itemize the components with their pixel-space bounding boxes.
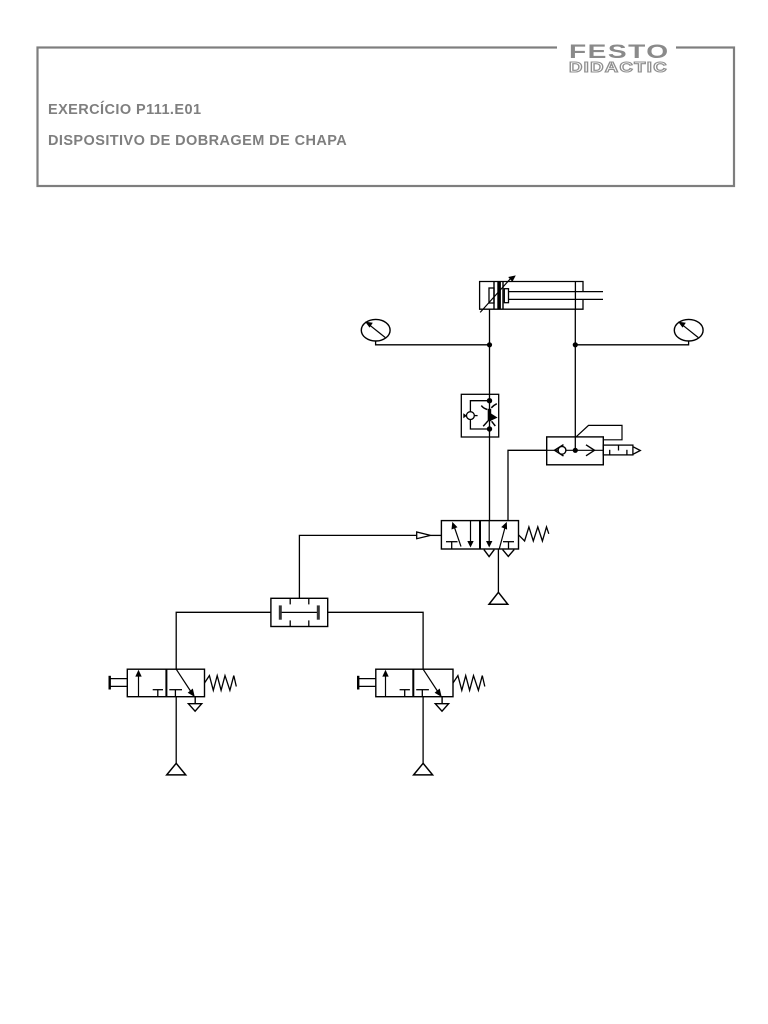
valve 1V2 left box down arrow bbox=[467, 521, 473, 548]
title text line 1 bbox=[48, 102, 201, 118]
valve 1S2 left box blocked port T bbox=[400, 690, 410, 697]
valve 1V2 left box blocked port T bbox=[446, 542, 458, 549]
wire: shuttle valve left port to valve 1S1 bbox=[176, 612, 271, 669]
quick exhaust valve 1V4 bbox=[547, 437, 604, 465]
cylinder cushioning adjust arrow bbox=[480, 275, 516, 312]
wire: cylinder right port down to quick exhaust valve bbox=[574, 309, 576, 450]
wire: right gauge to right cylinder line bbox=[573, 341, 689, 347]
valve 1V2 exhaust vents bbox=[484, 550, 514, 557]
valve 1S1 exhaust vent triangle bbox=[188, 697, 201, 712]
wire: cylinder left port down to valve 1V2 bbox=[489, 309, 491, 520]
valve 1S2 return spring bbox=[453, 676, 485, 691]
wire: left gauge to left cylinder line bbox=[376, 341, 493, 347]
valve 1V2 left box flow arrow bbox=[452, 522, 462, 547]
valve 1S1 left box up arrow bbox=[135, 670, 141, 697]
valve 1S2 left box up arrow bbox=[382, 670, 388, 697]
valve 1S1 3/2-way push-button valve, spring return bbox=[127, 669, 204, 697]
header border box bbox=[38, 44, 735, 186]
valve 1V2 pilot line with pilot triangle bbox=[299, 532, 441, 598]
wire: shuttle valve right port to valve 1S2 bbox=[328, 612, 423, 669]
DIDACTIC logo bbox=[569, 60, 668, 76]
quick exhaust valve internal junction bbox=[573, 448, 578, 453]
valve 1S2 right box blocked port T bbox=[416, 690, 429, 697]
valve 1S2 push button actuator bbox=[358, 676, 376, 690]
silencer on quick exhaust valve bbox=[603, 445, 640, 455]
valve 1S1 right box diagonal flow arrow bbox=[176, 669, 195, 697]
valve 1S1 push button actuator bbox=[110, 676, 128, 690]
valve 1S2 exhaust vent triangle bbox=[435, 697, 448, 712]
valve 1S1 right box blocked port T bbox=[169, 690, 182, 697]
valve 1S1 supply line and source triangle bbox=[167, 697, 186, 775]
title text line 2 bbox=[48, 133, 347, 149]
valve 1S2 3/2-way push-button valve, spring return bbox=[376, 669, 453, 697]
valve 1V2 supply line and source triangle bbox=[489, 549, 508, 604]
valve 1S1 left box blocked port T bbox=[153, 690, 163, 697]
flow control throttle with adjustment arrow bbox=[481, 398, 497, 432]
valve 1S1 return spring bbox=[205, 676, 237, 691]
pressure gauge right bbox=[674, 319, 703, 341]
valve 1V2 return spring bbox=[519, 527, 549, 541]
valve 1S2 right box diagonal flow arrow bbox=[423, 669, 442, 697]
valve 1V2 right box down arrow bbox=[486, 521, 492, 548]
one-way flow control valve 1V1 bbox=[461, 394, 498, 437]
valve 1S2 supply line and source triangle bbox=[414, 697, 433, 775]
pressure gauge left bbox=[361, 319, 390, 341]
valve 1V2 right box flow arrow bbox=[499, 522, 507, 549]
valve 1V2 3/2-way pneumatically piloted, spring return bbox=[441, 521, 518, 549]
FESTO logo bbox=[569, 42, 670, 64]
valve 1V2 right box blocked port T bbox=[503, 542, 514, 549]
shuttle valve 1V3 (OR function) bbox=[271, 598, 328, 626]
wire: quick exhaust valve to valve 1V2 top bbox=[508, 450, 547, 520]
cylinder 1A double-acting with adjustable cushioning bbox=[480, 282, 603, 310]
quick exhaust valve bypass loop bbox=[576, 425, 622, 439]
